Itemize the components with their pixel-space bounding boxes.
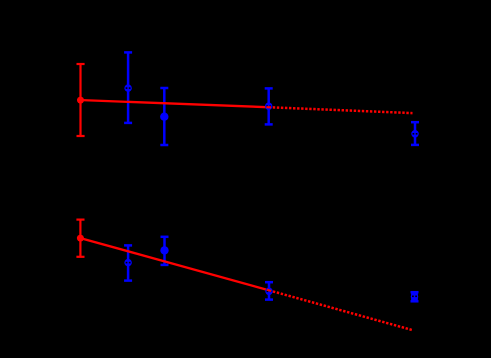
bottom panel blue open point 3 marker bbox=[411, 293, 419, 301]
bottom panel red errorbar bbox=[76, 220, 84, 257]
bottom panel blue filled point errorbar bbox=[161, 237, 169, 265]
top panel blue open point 1 errorbar bbox=[124, 52, 132, 123]
bottom panel red fit line (solid) bbox=[79, 238, 270, 291]
top panel blue open point 1 marker bbox=[124, 84, 132, 92]
bottom panel blue open point 1 errorbar bbox=[124, 245, 132, 280]
bottom panel blue open point 2 marker bbox=[265, 288, 273, 296]
top panel blue open point 3 marker bbox=[411, 130, 419, 138]
bottom panel red point bbox=[77, 235, 84, 242]
top panel red point bbox=[77, 97, 84, 104]
top panel blue open point 3 errorbar bbox=[411, 122, 419, 145]
top panel blue open point 2 marker bbox=[265, 102, 273, 110]
bottom panel blue open point 2 errorbar bbox=[265, 282, 273, 299]
bottom panel blue open point 1 marker bbox=[124, 259, 132, 267]
bottom panel red fit line (dotted extrapolation) bbox=[273, 291, 412, 330]
bottom panel blue filled point marker bbox=[160, 246, 168, 254]
top panel red fit line (dotted extrapolation) bbox=[273, 107, 413, 113]
top panel blue filled point marker bbox=[160, 113, 168, 121]
bottom panel blue open point 3 errorbar bbox=[411, 292, 419, 301]
top panel red errorbar bbox=[77, 64, 85, 136]
top panel red fit line (solid) bbox=[79, 100, 270, 107]
top panel blue open point 2 errorbar bbox=[265, 88, 273, 124]
top panel blue filled point errorbar bbox=[160, 88, 168, 145]
